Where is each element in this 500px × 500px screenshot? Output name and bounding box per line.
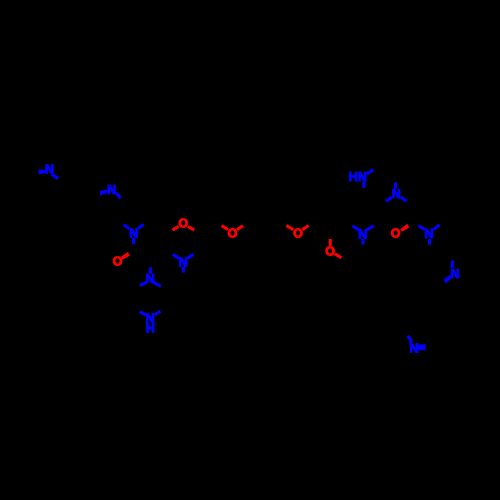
wire bond N10-C (up-left stub): [418, 226, 424, 230]
wire bond N5-C (down-right stub): [153, 282, 161, 286]
wire bond O4-C (up-right stub): [302, 226, 308, 230]
svg-text:H: H: [349, 170, 358, 184]
wire bond O5-C (down-right stub): [335, 254, 342, 258]
svg-text:N: N: [450, 267, 459, 281]
wire bond N4-C (down stub): [182, 267, 185, 273]
wire bond O3-C (up-right stub): [237, 226, 243, 230]
svg-text:O: O: [228, 227, 238, 241]
wire bond N10-C (down stub): [428, 239, 431, 245]
svg-text:O: O: [178, 216, 188, 230]
bond wedge C=N2 (left stub): [100, 190, 107, 196]
wire bond N10-C (up-right stub): [433, 225, 439, 230]
wire bond N7-C (up-right stub): [367, 226, 374, 230]
wire bond N9-C (down-left stub): [386, 197, 392, 201]
wire bond N12 left stroke continuation: [409, 340, 412, 346]
wire bond N7-C (down stub): [361, 239, 364, 245]
bond wedge C=O6 (up-right thick stub): [400, 224, 409, 232]
wire bond N3-C (up-right stub): [138, 224, 143, 228]
wire bond O1-C (down-right stub): [188, 226, 194, 230]
svg-text:N: N: [424, 227, 433, 241]
wire bond N6-C (up-right stub): [155, 311, 161, 315]
svg-text:H: H: [146, 322, 155, 336]
wire bond N8-C (down stub): [362, 181, 365, 188]
wire bond N5-C (up stub): [149, 267, 152, 273]
wire bond N2-C (down-right stub): [116, 193, 121, 198]
svg-text:N: N: [392, 187, 401, 201]
bond wedge C=O2 (up-right thick stub): [121, 252, 130, 260]
wire bond N5-C (down-left stub): [140, 282, 146, 286]
wire bond N4-C (up-left stub): [173, 254, 179, 258]
wire bond N9-C (up stub): [394, 182, 397, 188]
wire bond N12-C (up-left stub): [408, 336, 412, 341]
svg-text:O: O: [391, 226, 401, 240]
wire bond O3-C (up-left stub): [222, 226, 228, 230]
bond wedge C=N1 (left stub): [39, 169, 46, 174]
wire bond N11-C (up stub): [452, 260, 453, 268]
wire bond N3-C (down stub): [132, 238, 135, 244]
wire bond N4-C (up-right stub): [187, 254, 193, 258]
wire bond O5-C (up stub): [329, 239, 332, 246]
bond wedge C=N11 (down-left thick stub): [444, 275, 452, 284]
wire bond N1-C (down-right stub): [52, 174, 59, 179]
wire bond N7-C (up-left stub): [352, 226, 359, 230]
wire bond N9-C (down-right stub): [401, 197, 407, 201]
wire bond O1-C (down-left stub): [173, 226, 179, 230]
bond double C=N12 (right thick stub): [418, 344, 426, 350]
wire bond O4-C (up-left stub): [286, 225, 293, 229]
wire bond N8-C (up-right stub): [367, 170, 373, 175]
wire bond N6-C (up-left stub): [140, 312, 146, 315]
wire bond N3-C (up-left stub): [124, 225, 130, 229]
svg-text:O: O: [113, 255, 123, 269]
svg-text:O: O: [325, 245, 335, 259]
svg-text:N: N: [107, 183, 116, 197]
